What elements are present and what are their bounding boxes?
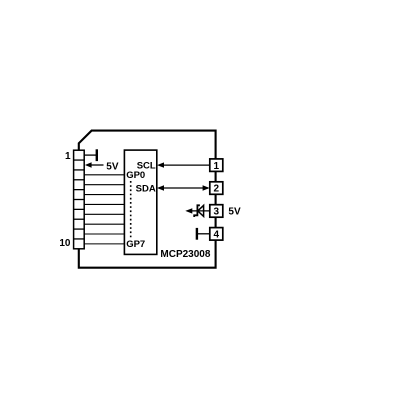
- terminal bar at box 4: [196, 228, 198, 240]
- svg-text:5V: 5V: [106, 161, 119, 172]
- svg-text:GP7: GP7: [126, 239, 145, 250]
- connector J1 (10-pin header): [74, 150, 85, 249]
- bus box 2: [210, 182, 223, 195]
- svg-text:MCP23008: MCP23008: [160, 249, 210, 260]
- svg-text:SDA: SDA: [136, 183, 156, 194]
- bus box 4: [210, 228, 223, 241]
- svg-text:1: 1: [214, 161, 220, 172]
- svg-text:10: 10: [59, 238, 71, 249]
- svg-text:1: 1: [65, 151, 71, 162]
- wire: pin2 5V with left arrow: [88, 164, 104, 166]
- svg-text:5V: 5V: [228, 207, 241, 218]
- wire: bus box 4 to stub terminal: [197, 233, 210, 235]
- svg-text:4: 4: [214, 230, 220, 241]
- svg-text:3: 3: [214, 207, 220, 218]
- wires: pins 3..10 to GP0..GP7: [84, 175, 124, 244]
- IC U1 MCP23008 body: [124, 150, 156, 254]
- svg-text:2: 2: [214, 184, 220, 195]
- svg-text:GP0: GP0: [126, 170, 145, 181]
- wire: SDA to bus box 2 (arrows both ends): [159, 187, 208, 189]
- dotted line GP1..GP6: [130, 181, 132, 238]
- wire: SCL to bus box 1 (arrow left): [159, 164, 210, 166]
- wire: outer bus loop (pin1 top, top edge, right bus, bottom edge, pin10 return): [79, 131, 216, 268]
- diode D1 (zener) with left arrow into bus box 3: [188, 210, 210, 212]
- bus box 1: [210, 159, 223, 172]
- terminal bar at pin1: [96, 149, 98, 161]
- bus box 3: [210, 205, 223, 218]
- wire: pin1 to stub terminal: [84, 154, 97, 156]
